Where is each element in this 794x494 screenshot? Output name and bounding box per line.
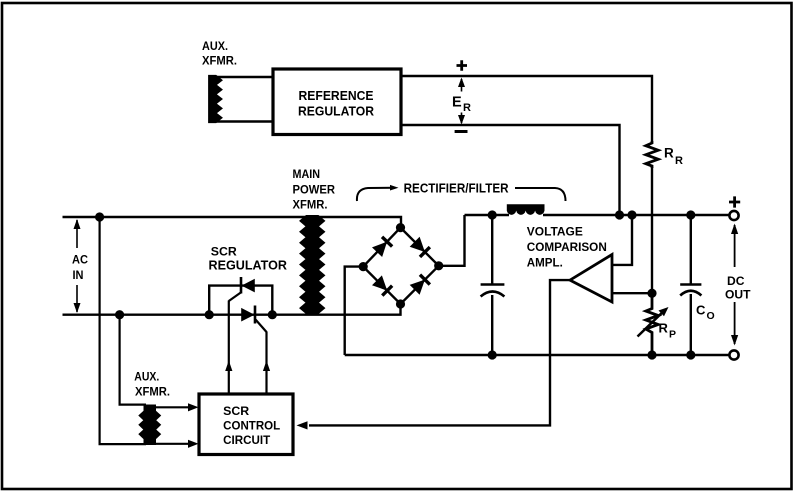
dimension arrow E_R upper	[458, 78, 465, 92]
svg-text:R: R	[463, 102, 471, 114]
diode CR4 lower-right	[410, 275, 430, 295]
arrowhead into box bottom-left	[188, 440, 199, 448]
thyristor Q2 (lower, pointing right, on rail)	[241, 306, 266, 333]
node bridge left	[359, 262, 368, 271]
transformer T3 aux winding	[139, 405, 161, 445]
node + polarity mark DC OUT	[729, 196, 740, 207]
node RP bottom on -V rail	[647, 350, 656, 359]
terminal DC-	[729, 350, 738, 359]
label VOLTAGE COMPARISON AMPL.	[527, 224, 607, 269]
svg-text:CIRCUIT: CIRCUIT	[223, 435, 270, 447]
arrowhead gate Q1	[225, 361, 232, 372]
svg-text:POWER: POWER	[293, 183, 336, 197]
node SCR loop right	[268, 310, 277, 319]
arrowhead into box top-left	[188, 403, 199, 411]
svg-text:REFERENCE: REFERENCE	[299, 89, 374, 103]
dimension arrow AC IN lower	[74, 285, 81, 313]
wire -V output rail	[345, 354, 730, 356]
wire T1 secondary top to U1	[214, 76, 274, 78]
svg-text:R: R	[664, 146, 674, 161]
svg-text:AUX.: AUX.	[134, 370, 159, 384]
label AC IN	[72, 253, 88, 282]
svg-text:SCR: SCR	[211, 245, 237, 259]
dimension arrow E_R lower	[458, 113, 465, 125]
wire +V output rail	[465, 214, 510, 216]
svg-text:C: C	[696, 303, 706, 318]
leader right of rectifier/filter label	[515, 188, 566, 201]
inductor L1 filter choke	[507, 204, 545, 215]
label C_O	[696, 303, 715, 323]
node junction top rail x=99.6	[95, 212, 104, 221]
diode CR3 lower-left	[372, 275, 392, 295]
svg-text:AC: AC	[72, 253, 88, 267]
node CO bottom	[686, 350, 695, 359]
node E_R- junction on +V rail	[615, 210, 624, 219]
svg-text:CONTROL: CONTROL	[223, 421, 280, 433]
svg-text:RECTIFIER/FILTER: RECTIFIER/FILTER	[404, 182, 509, 196]
svg-text:XFMR.: XFMR.	[202, 54, 237, 68]
node bridge top	[396, 223, 405, 232]
wire AC bottom rail	[63, 304, 401, 315]
node C1 top	[488, 210, 497, 219]
diode CR1 upper-left	[372, 237, 392, 257]
svg-text:COMPARISON: COMPARISON	[527, 240, 607, 254]
dimension arrow DC OUT upper	[731, 224, 738, 268]
wire bridge right vertex up to +V rail	[439, 215, 465, 266]
arrowhead into control box right edge	[297, 421, 308, 429]
label SCR REGULATOR	[209, 245, 288, 273]
svg-text:E: E	[452, 95, 462, 111]
wire T1 secondary bottom to U1	[214, 120, 274, 122]
node bridge bottom	[396, 299, 405, 308]
wire E_R+ from U1 to node at RR top	[401, 76, 652, 141]
svg-text:AUX.: AUX.	[202, 39, 228, 53]
wire top rail tap to aux xfmr T3 (crosses bottom rail)	[100, 217, 146, 444]
block U1 REFERENCE REGULATOR	[273, 69, 401, 135]
wire gate Q2 to control box	[265, 332, 267, 395]
block U2 SCR CONTROL CIRCUIT	[199, 394, 293, 455]
svg-text:SCR: SCR	[223, 406, 250, 418]
node op-amp + input tap on +V rail	[627, 210, 636, 219]
label R_R	[664, 146, 683, 168]
node + polarity mark of E_R	[457, 60, 468, 70]
svg-text:REGULATOR: REGULATOR	[298, 105, 374, 119]
diode bridge CR1-CR4	[363, 228, 439, 304]
wire bottom rail tap to aux xfmr T3	[120, 315, 146, 405]
wire E_R- from U1 down to +V rail	[401, 125, 620, 215]
node - polarity mark of E_R	[455, 130, 468, 133]
label R_P	[659, 321, 677, 341]
node bridge right	[434, 261, 443, 270]
wire RR bottom crossing +V rail to node B	[651, 167, 653, 293]
svg-text:R: R	[659, 321, 669, 336]
label AUX. XFMR. (bottom)	[134, 370, 170, 399]
node junction bottom rail x=119.6	[115, 310, 124, 319]
terminal DC+	[729, 211, 738, 220]
dimension arrow AC IN upper	[74, 219, 81, 248]
transformer T1 aux winding	[209, 76, 222, 123]
wire op-amp output to control box	[309, 280, 570, 425]
wire op-amp bottom input	[612, 292, 652, 294]
svg-text:DC: DC	[727, 274, 745, 288]
capacitor C1 filter	[481, 215, 505, 355]
svg-text:XFMR.: XFMR.	[293, 197, 328, 211]
svg-text:P: P	[669, 329, 676, 341]
op-amp U3 voltage comparison ampl	[570, 255, 612, 303]
label DC OUT	[725, 274, 751, 301]
svg-text:REGULATOR: REGULATOR	[209, 258, 288, 272]
label AUX. XFMR. (top)	[202, 39, 237, 68]
svg-text:IN: IN	[73, 268, 84, 282]
wire gate Q1 to control box	[228, 301, 230, 395]
wire T3 secondary top to control box	[154, 406, 191, 408]
arms	[363, 228, 400, 267]
diode CR2 upper-right	[410, 237, 430, 257]
label E_R	[452, 95, 471, 115]
svg-text:R: R	[675, 155, 683, 167]
svg-text:VOLTAGE: VOLTAGE	[527, 224, 583, 238]
label MAIN POWER XFMR.	[293, 167, 336, 211]
thyristor Q1 (upper, pointing left)	[229, 277, 255, 301]
node CO top	[686, 210, 695, 219]
resistor RR	[646, 141, 658, 168]
svg-text:XFMR.: XFMR.	[135, 385, 170, 399]
svg-text:O: O	[707, 310, 715, 322]
wire AC top rail	[63, 217, 402, 228]
potentiometer RP	[638, 293, 669, 355]
svg-text:AMPL.: AMPL.	[527, 255, 563, 269]
transformer T2 main power xfmr	[300, 216, 325, 314]
capacitor CO	[680, 215, 701, 355]
dimension arrow DC OUT lower	[731, 302, 738, 346]
wire bridge left vertex to -V rail	[345, 267, 364, 355]
wire op-amp top input	[612, 215, 632, 265]
leader left of rectifier/filter label	[357, 188, 395, 201]
wire T3 secondary bottom to control box	[154, 443, 191, 445]
node B junction RR/RP/op-amp	[647, 289, 656, 298]
svg-text:OUT: OUT	[725, 287, 751, 301]
node C1 bottom	[488, 350, 497, 359]
svg-text:MAIN: MAIN	[293, 167, 321, 181]
arrowhead gate Q2	[263, 361, 270, 372]
wire SCR bypass loop	[209, 286, 272, 315]
node SCR loop left	[205, 310, 214, 319]
